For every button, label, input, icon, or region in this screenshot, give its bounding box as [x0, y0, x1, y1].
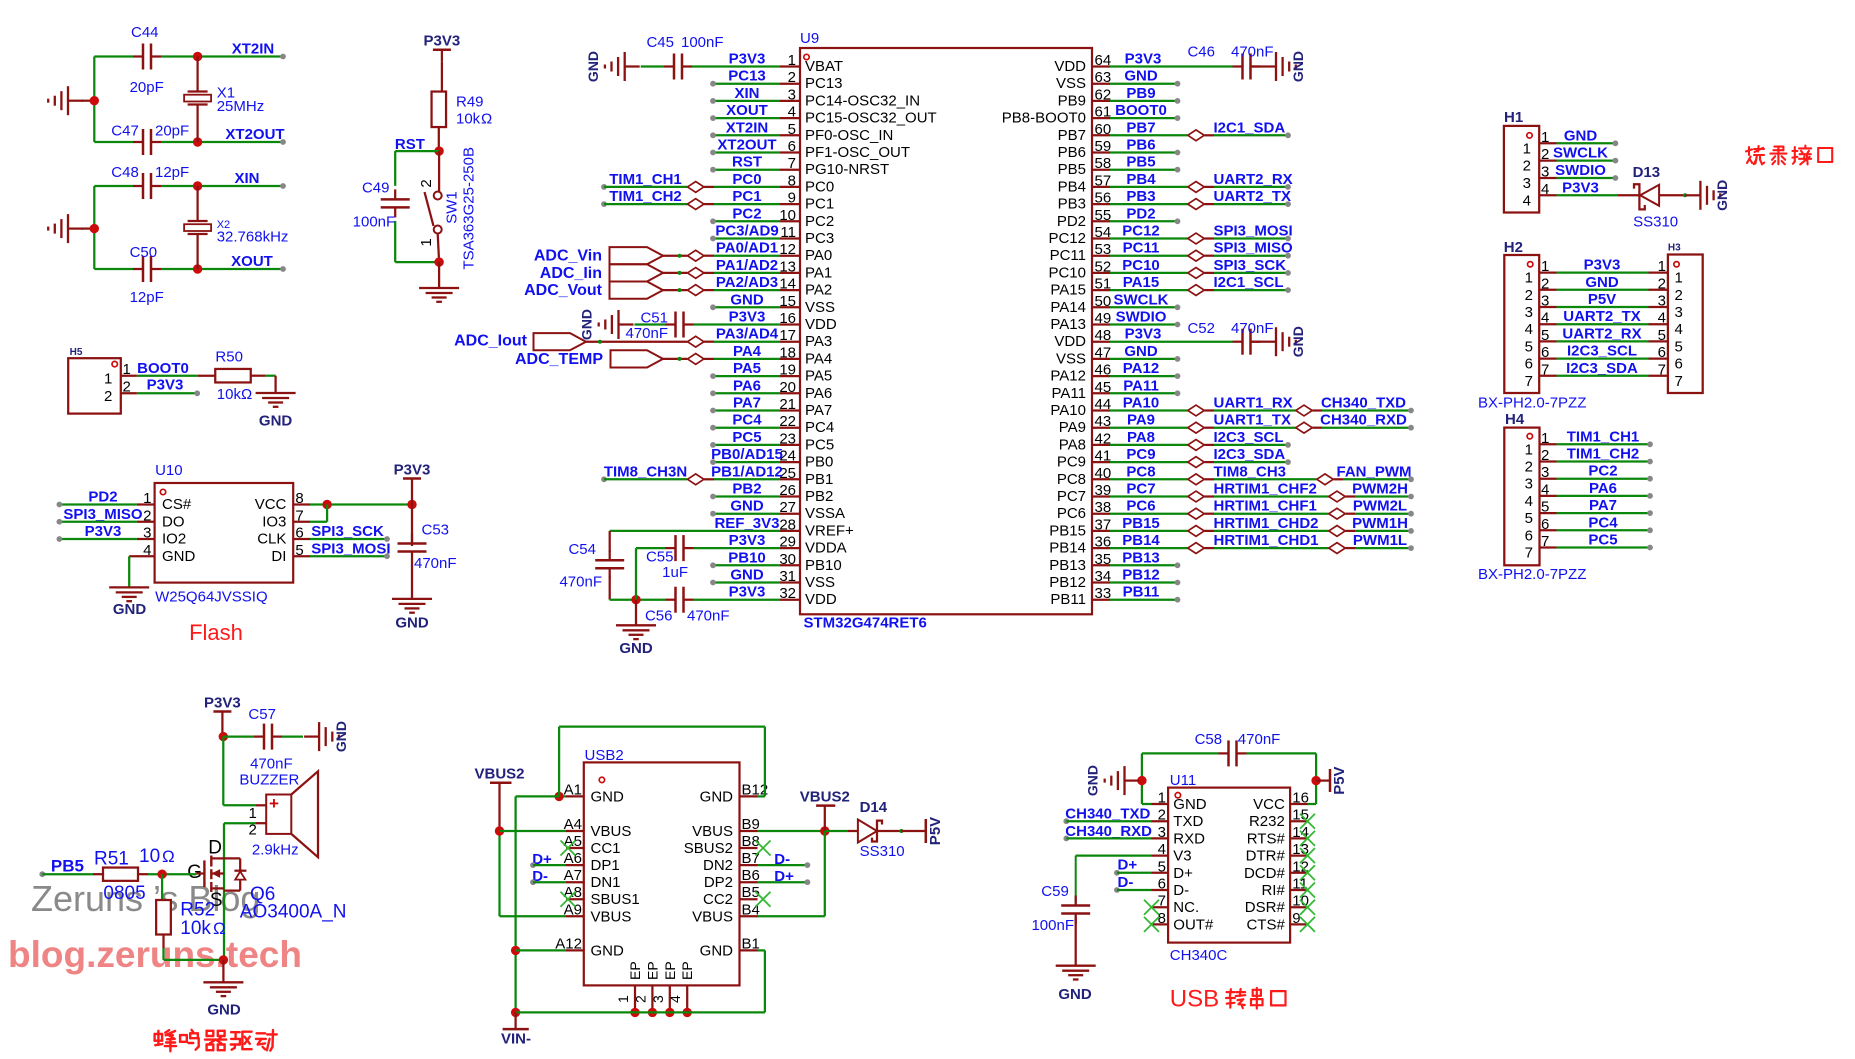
svg-text:25MHz: 25MHz — [217, 98, 265, 115]
svg-text:470nF: 470nF — [1238, 731, 1281, 748]
svg-text:VBAT: VBAT — [805, 58, 843, 75]
svg-text:SPI3_SCK: SPI3_SCK — [1214, 257, 1287, 274]
svg-text:CS#: CS# — [162, 496, 192, 513]
svg-text:DSR#: DSR# — [1245, 899, 1286, 916]
svg-text:C57: C57 — [248, 706, 276, 723]
svg-text:XOUT: XOUT — [726, 102, 768, 119]
svg-text:Ω: Ω — [162, 847, 175, 866]
svg-text:R50: R50 — [215, 349, 243, 366]
svg-text:DP1: DP1 — [591, 857, 620, 874]
svg-text:VBUS: VBUS — [692, 908, 733, 925]
svg-text:GND: GND — [1714, 180, 1730, 211]
svg-text:P5V: P5V — [927, 817, 944, 845]
svg-text:7: 7 — [1675, 373, 1683, 390]
svg-text:VBUS2: VBUS2 — [474, 766, 524, 783]
svg-text:D: D — [208, 838, 222, 859]
svg-text:GND: GND — [1585, 274, 1619, 291]
svg-text:VBUS: VBUS — [591, 908, 632, 925]
svg-text:TXD: TXD — [1173, 813, 1203, 830]
svg-text:GND: GND — [579, 309, 595, 340]
svg-text:I2C3_SCL: I2C3_SCL — [1567, 343, 1637, 360]
svg-text:PB15: PB15 — [1049, 522, 1086, 539]
svg-text:+: + — [269, 794, 279, 813]
svg-text:Ω: Ω — [241, 386, 252, 403]
svg-text:PC2: PC2 — [1588, 463, 1617, 480]
svg-text:10k: 10k — [180, 918, 211, 939]
svg-text:C46: C46 — [1187, 44, 1215, 61]
svg-text:H5: H5 — [70, 347, 83, 358]
svg-text:20pF: 20pF — [130, 79, 164, 96]
svg-text:PA8: PA8 — [1127, 429, 1155, 446]
svg-text:XOUT: XOUT — [231, 253, 273, 270]
svg-text:PB6: PB6 — [1126, 137, 1155, 154]
svg-text:VSS: VSS — [1056, 350, 1086, 367]
svg-text:PA9: PA9 — [1059, 419, 1086, 436]
svg-text:PC7: PC7 — [1057, 488, 1086, 505]
svg-text:VDD: VDD — [1054, 333, 1086, 350]
svg-text:PC3/AD9: PC3/AD9 — [715, 223, 778, 240]
svg-text:PB3: PB3 — [1126, 188, 1155, 205]
svg-text:C50: C50 — [130, 244, 158, 261]
svg-text:IO3: IO3 — [262, 513, 286, 530]
svg-text:5: 5 — [1675, 338, 1683, 355]
svg-text:C54: C54 — [568, 541, 596, 558]
svg-text:VCC: VCC — [255, 496, 287, 513]
svg-text:PA8: PA8 — [1059, 436, 1086, 453]
svg-text:ADC_Iin: ADC_Iin — [540, 265, 602, 282]
svg-text:SWCLK: SWCLK — [1114, 291, 1169, 308]
svg-text:PB12: PB12 — [1049, 574, 1086, 591]
svg-text:D+: D+ — [1173, 865, 1193, 882]
svg-text:PA4: PA4 — [733, 343, 762, 360]
svg-text:DO: DO — [162, 513, 185, 530]
svg-text:VREF+: VREF+ — [805, 522, 854, 539]
svg-text:PC14-OSC32_IN: PC14-OSC32_IN — [805, 92, 920, 109]
svg-text:4: 4 — [1523, 192, 1531, 209]
svg-text:12pF: 12pF — [130, 289, 164, 306]
svg-text:H3: H3 — [1668, 243, 1681, 254]
svg-text:D13: D13 — [1633, 164, 1661, 181]
svg-text:PA5: PA5 — [805, 368, 832, 385]
svg-text:SS310: SS310 — [860, 843, 905, 860]
svg-text:GND: GND — [730, 498, 764, 515]
svg-text:RTS#: RTS# — [1247, 830, 1286, 847]
svg-text:1: 1 — [418, 238, 435, 246]
svg-text:2: 2 — [249, 822, 257, 839]
svg-text:P3V3: P3V3 — [1584, 257, 1621, 274]
svg-text:C59: C59 — [1041, 883, 1069, 900]
svg-text:P3V3: P3V3 — [85, 523, 122, 540]
svg-text:ADC_Vin: ADC_Vin — [534, 248, 602, 265]
svg-text:PC2: PC2 — [732, 205, 761, 222]
svg-text:DCD#: DCD# — [1244, 865, 1285, 882]
svg-text:VBUS: VBUS — [591, 823, 632, 840]
svg-text:3: 3 — [650, 995, 666, 1003]
svg-text:PA12: PA12 — [1123, 360, 1159, 377]
svg-text:GND: GND — [1290, 326, 1306, 357]
svg-text:PC5: PC5 — [732, 429, 761, 446]
svg-text:4: 4 — [1675, 321, 1683, 338]
svg-text:2: 2 — [1525, 459, 1533, 476]
svg-text:PA6: PA6 — [733, 377, 761, 394]
svg-text:PB14: PB14 — [1122, 532, 1160, 549]
svg-text:PB7: PB7 — [1126, 119, 1155, 136]
svg-text:GND: GND — [1124, 343, 1158, 360]
svg-text:VIN-: VIN- — [501, 1031, 531, 1048]
svg-text:XIN: XIN — [734, 85, 759, 102]
svg-text:PA12: PA12 — [1050, 368, 1086, 385]
svg-text:PB13: PB13 — [1049, 557, 1086, 574]
svg-text:TSA363G25-250B: TSA363G25-250B — [461, 147, 478, 270]
svg-text:GND: GND — [591, 942, 625, 959]
svg-text:5: 5 — [1525, 510, 1533, 527]
svg-text:ADC_Vout: ADC_Vout — [524, 282, 603, 299]
svg-text:6: 6 — [1525, 356, 1533, 373]
svg-text:PB9: PB9 — [1058, 92, 1086, 109]
svg-text:GND: GND — [113, 601, 147, 618]
svg-text:SPI3_SCK: SPI3_SCK — [311, 523, 384, 540]
svg-text:PB13: PB13 — [1122, 549, 1160, 566]
svg-text:PF1-OSC_OUT: PF1-OSC_OUT — [805, 144, 910, 161]
svg-text:SBUS1: SBUS1 — [591, 891, 640, 908]
svg-text:VDD: VDD — [805, 591, 837, 608]
svg-text:6: 6 — [1525, 527, 1533, 544]
svg-text:PC12: PC12 — [1122, 223, 1160, 240]
svg-text:PF0-OSC_IN: PF0-OSC_IN — [805, 127, 893, 144]
svg-text:C47: C47 — [111, 123, 139, 140]
svg-text:EP: EP — [627, 961, 643, 980]
svg-text:C56: C56 — [645, 608, 673, 625]
svg-text:2: 2 — [1525, 287, 1533, 304]
svg-text:P3V3: P3V3 — [204, 695, 241, 712]
svg-text:Ω: Ω — [481, 110, 492, 127]
svg-text:PC8: PC8 — [1057, 471, 1086, 488]
svg-text:PA2: PA2 — [805, 282, 832, 299]
svg-text:DP2: DP2 — [704, 874, 733, 891]
svg-text:U9: U9 — [800, 30, 819, 47]
svg-text:GND: GND — [1173, 796, 1207, 813]
svg-text:PB9: PB9 — [1126, 85, 1155, 102]
svg-text:PC6: PC6 — [1057, 505, 1086, 522]
svg-text:P5V: P5V — [1331, 766, 1348, 794]
svg-text:GND: GND — [585, 51, 601, 82]
svg-text:BUZZER: BUZZER — [239, 772, 299, 789]
svg-text:XT2OUT: XT2OUT — [225, 126, 284, 143]
svg-text:GND: GND — [259, 413, 293, 430]
svg-text:SWDIO: SWDIO — [1116, 309, 1167, 326]
svg-text:PWM1H: PWM1H — [1352, 515, 1408, 532]
svg-text:V3: V3 — [1173, 848, 1191, 865]
svg-text:PA6: PA6 — [1589, 480, 1617, 497]
svg-text:GND: GND — [619, 640, 653, 657]
svg-text:1: 1 — [104, 370, 112, 387]
svg-text:PC15-OSC32_OUT: PC15-OSC32_OUT — [805, 110, 937, 127]
svg-text:H4: H4 — [1505, 411, 1525, 428]
svg-text:BX-PH2.0-7PZZ: BX-PH2.0-7PZZ — [1478, 394, 1586, 411]
svg-text:SPI3_MISO: SPI3_MISO — [1214, 240, 1294, 257]
svg-text:SPI3_MOSI: SPI3_MOSI — [1214, 223, 1293, 240]
svg-text:PG10-NRST: PG10-NRST — [805, 161, 889, 178]
svg-text:VCC: VCC — [1253, 796, 1285, 813]
svg-text:UART1_TX: UART1_TX — [1214, 412, 1292, 429]
svg-text:470nF: 470nF — [1231, 320, 1274, 337]
svg-text:PA14: PA14 — [1050, 299, 1086, 316]
svg-text:PC13: PC13 — [728, 68, 766, 85]
svg-text:PB11: PB11 — [1123, 584, 1160, 601]
svg-text:3: 3 — [1525, 476, 1533, 493]
svg-text:C44: C44 — [131, 24, 159, 41]
svg-text:GND: GND — [591, 788, 625, 805]
svg-text:PB0: PB0 — [805, 454, 833, 471]
svg-text:20pF: 20pF — [155, 123, 189, 140]
svg-text:PD2: PD2 — [88, 489, 117, 506]
svg-text:PB7: PB7 — [1058, 127, 1086, 144]
svg-text:CH340_TXD: CH340_TXD — [1321, 395, 1406, 412]
svg-text:SWDIO: SWDIO — [1555, 162, 1606, 179]
svg-text:PB3: PB3 — [1058, 196, 1086, 213]
svg-text:I2C3_SDA: I2C3_SDA — [1214, 446, 1286, 463]
svg-text:C53: C53 — [422, 522, 450, 539]
svg-text:PC2: PC2 — [805, 213, 834, 230]
svg-text:VBUS2: VBUS2 — [800, 789, 850, 806]
svg-text:100nF: 100nF — [681, 34, 724, 51]
svg-text:PA7: PA7 — [733, 395, 761, 412]
svg-text:PB11: PB11 — [1050, 591, 1086, 608]
svg-text:VDDA: VDDA — [805, 540, 847, 557]
svg-text:AO3400A_N: AO3400A_N — [240, 902, 347, 923]
svg-text:1: 1 — [1523, 140, 1531, 157]
svg-text:12pF: 12pF — [155, 164, 189, 181]
svg-text:SPI3_MOSI: SPI3_MOSI — [311, 541, 390, 558]
svg-text:PA6: PA6 — [805, 385, 832, 402]
svg-text:PB1/AD12: PB1/AD12 — [711, 463, 783, 480]
svg-text:PA10: PA10 — [1123, 395, 1159, 412]
svg-text:CH340_TXD: CH340_TXD — [1065, 806, 1150, 823]
svg-text:VSS: VSS — [1056, 75, 1086, 92]
svg-text:U10: U10 — [155, 462, 183, 479]
svg-text:I2C1_SCL: I2C1_SCL — [1214, 274, 1284, 291]
svg-text:P3V3: P3V3 — [729, 584, 766, 601]
svg-text:GND: GND — [730, 291, 764, 308]
svg-text:GND: GND — [1564, 127, 1598, 144]
svg-text:PA1: PA1 — [805, 264, 832, 281]
svg-text:TIM1_CH1: TIM1_CH1 — [609, 171, 682, 188]
svg-text:GND: GND — [1124, 68, 1158, 85]
svg-text:EP: EP — [679, 961, 695, 980]
svg-text:PB12: PB12 — [1122, 567, 1160, 584]
svg-text:TIM1_CH2: TIM1_CH2 — [1567, 446, 1640, 463]
svg-text:PC12: PC12 — [1048, 230, 1086, 247]
svg-text:6: 6 — [1675, 356, 1683, 373]
svg-text:PB10: PB10 — [728, 549, 766, 566]
svg-text:OUT#: OUT# — [1173, 916, 1214, 933]
svg-text:R51: R51 — [94, 849, 129, 870]
svg-text:R49: R49 — [456, 93, 484, 110]
svg-text:470nF: 470nF — [414, 555, 457, 572]
svg-text:HRTIM1_CHF2: HRTIM1_CHF2 — [1214, 481, 1317, 498]
svg-text:REF_3V3: REF_3V3 — [714, 515, 779, 532]
svg-text:PC5: PC5 — [1588, 532, 1617, 549]
svg-text:DN1: DN1 — [591, 874, 621, 891]
svg-text:470nF: 470nF — [250, 756, 293, 773]
svg-text:TIM1_CH1: TIM1_CH1 — [1567, 428, 1640, 445]
svg-text:PC4: PC4 — [805, 419, 834, 436]
svg-text:C51: C51 — [640, 310, 668, 327]
svg-text:3: 3 — [1523, 175, 1531, 192]
svg-text:PWM2H: PWM2H — [1352, 481, 1408, 498]
svg-text:UART2_RX: UART2_RX — [1562, 325, 1641, 342]
svg-text:GND: GND — [1085, 765, 1101, 796]
svg-text:CH340_RXD: CH340_RXD — [1065, 823, 1152, 840]
svg-text:PD2: PD2 — [1057, 213, 1086, 230]
svg-text:BOOT0: BOOT0 — [1115, 102, 1167, 119]
svg-text:XT2IN: XT2IN — [232, 41, 275, 58]
svg-text:PC4: PC4 — [1588, 514, 1618, 531]
svg-text:DN2: DN2 — [703, 857, 733, 874]
svg-text:P3V3: P3V3 — [729, 532, 766, 549]
svg-text:TIM8_CH3: TIM8_CH3 — [1214, 463, 1287, 480]
svg-text:ADC_Iout: ADC_Iout — [454, 333, 528, 350]
svg-text:PC9: PC9 — [1057, 454, 1086, 471]
svg-text:CC1: CC1 — [591, 840, 621, 857]
svg-text:PB5: PB5 — [51, 857, 84, 876]
svg-text:VDD: VDD — [805, 316, 837, 333]
svg-text:PC8: PC8 — [1126, 463, 1155, 480]
svg-text:PC1: PC1 — [732, 188, 761, 205]
svg-text:SWCLK: SWCLK — [1553, 145, 1608, 162]
svg-text:P5V: P5V — [1588, 291, 1616, 308]
svg-text:2: 2 — [1675, 287, 1683, 304]
svg-text:PC9: PC9 — [1126, 446, 1155, 463]
svg-text:VBUS: VBUS — [692, 823, 733, 840]
svg-text:HRTIM1_CHD2: HRTIM1_CHD2 — [1214, 515, 1319, 532]
svg-text:D-: D- — [1118, 874, 1134, 891]
svg-text:Ω: Ω — [213, 919, 226, 938]
svg-text:DTR#: DTR# — [1246, 848, 1286, 865]
svg-text:100nF: 100nF — [1031, 917, 1074, 934]
svg-text:PC6: PC6 — [1126, 498, 1155, 515]
svg-text:FAN_PWM: FAN_PWM — [1337, 463, 1412, 480]
svg-text:PA3: PA3 — [805, 333, 832, 350]
svg-text:CH340C: CH340C — [1170, 947, 1228, 964]
svg-text:PC5: PC5 — [805, 436, 834, 453]
svg-text:PA9: PA9 — [1127, 412, 1155, 429]
svg-text:I2C1_SDA: I2C1_SDA — [1214, 119, 1286, 136]
svg-text:PB1: PB1 — [805, 471, 833, 488]
svg-text:GND: GND — [700, 942, 734, 959]
svg-text:PB4: PB4 — [1126, 171, 1156, 188]
svg-text:2: 2 — [1523, 158, 1531, 175]
svg-text:GND: GND — [395, 615, 429, 632]
svg-text:Zeruns ’s Blog: Zeruns ’s Blog — [31, 878, 260, 919]
svg-text:PA11: PA11 — [1052, 385, 1086, 402]
svg-text:PB0/AD15: PB0/AD15 — [711, 446, 783, 463]
svg-text:BX-PH2.0-7PZZ: BX-PH2.0-7PZZ — [1478, 566, 1586, 583]
svg-text:CLK: CLK — [257, 531, 286, 548]
svg-text:10k: 10k — [217, 386, 242, 403]
svg-text:CTS#: CTS# — [1246, 916, 1285, 933]
svg-text:VSSA: VSSA — [805, 505, 845, 522]
svg-text:10k: 10k — [456, 110, 481, 127]
svg-text:SW1: SW1 — [444, 191, 461, 224]
svg-text:PA15: PA15 — [1050, 282, 1086, 299]
svg-text:P3V3: P3V3 — [1125, 326, 1162, 343]
svg-text:4: 4 — [667, 995, 683, 1003]
svg-text:IO2: IO2 — [162, 531, 186, 548]
svg-text:1: 1 — [615, 995, 631, 1003]
svg-text:PB15: PB15 — [1122, 515, 1160, 532]
svg-text:C58: C58 — [1195, 731, 1223, 748]
svg-text:10: 10 — [139, 846, 160, 867]
svg-text:PB4: PB4 — [1058, 178, 1086, 195]
svg-text:U11: U11 — [1170, 772, 1196, 789]
svg-text:PC7: PC7 — [1126, 481, 1155, 498]
svg-text:4: 4 — [1525, 321, 1533, 338]
svg-text:470nF: 470nF — [625, 325, 668, 342]
svg-text:5: 5 — [1525, 338, 1533, 355]
svg-text:470nF: 470nF — [559, 574, 602, 591]
svg-text:100nF: 100nF — [353, 214, 396, 231]
svg-text:PC0: PC0 — [805, 178, 834, 195]
svg-text:I2C3_SCL: I2C3_SCL — [1214, 429, 1284, 446]
svg-text:PB6: PB6 — [1058, 144, 1086, 161]
svg-text:P3V3: P3V3 — [729, 309, 766, 326]
svg-text:GND: GND — [730, 567, 764, 584]
svg-text:VDD: VDD — [1054, 58, 1086, 75]
svg-text:PA15: PA15 — [1123, 274, 1159, 291]
svg-text:UART2_RX: UART2_RX — [1214, 171, 1293, 188]
svg-text:PA11: PA11 — [1123, 377, 1159, 394]
svg-text:PA3/AD4: PA3/AD4 — [716, 326, 779, 343]
svg-text:D+: D+ — [1118, 857, 1138, 874]
svg-text:H2: H2 — [1504, 239, 1523, 256]
svg-text:P3V3: P3V3 — [424, 33, 461, 50]
svg-text:DI: DI — [271, 548, 286, 565]
svg-text:P3V3: P3V3 — [729, 51, 766, 68]
svg-text:C45: C45 — [646, 34, 674, 51]
svg-text:Flash: Flash — [189, 620, 243, 645]
svg-text:7: 7 — [1525, 545, 1533, 562]
svg-text:H1: H1 — [1504, 109, 1523, 126]
svg-text:D-: D- — [1173, 882, 1189, 899]
svg-text:PB8-BOOT0: PB8-BOOT0 — [1002, 110, 1086, 127]
svg-text:2: 2 — [632, 995, 648, 1003]
svg-text:RI#: RI# — [1261, 882, 1285, 899]
svg-text:ADC_TEMP: ADC_TEMP — [515, 351, 603, 368]
svg-text:GND: GND — [700, 788, 734, 805]
svg-text:C52: C52 — [1187, 320, 1215, 337]
svg-text:PC11: PC11 — [1123, 240, 1160, 257]
svg-text:HRTIM1_CHD1: HRTIM1_CHD1 — [1214, 532, 1319, 549]
svg-text:UART2_TX: UART2_TX — [1214, 188, 1292, 205]
svg-text:3: 3 — [1675, 304, 1683, 321]
svg-text:PB10: PB10 — [805, 557, 842, 574]
svg-text:3: 3 — [1525, 304, 1533, 321]
svg-text:UART2_TX: UART2_TX — [1563, 308, 1641, 325]
svg-text:W25Q64JVSSIQ: W25Q64JVSSIQ — [155, 589, 268, 606]
svg-text:SPI3_MISO: SPI3_MISO — [63, 506, 143, 523]
svg-text:XT2OUT: XT2OUT — [717, 137, 776, 154]
svg-text:EP: EP — [644, 961, 660, 980]
svg-text:PC11: PC11 — [1050, 247, 1086, 264]
svg-text:2: 2 — [104, 388, 112, 405]
svg-text:1: 1 — [1675, 270, 1683, 287]
svg-text:PWM1L: PWM1L — [1353, 532, 1407, 549]
svg-text:P3V3: P3V3 — [1562, 179, 1599, 196]
svg-text:C48: C48 — [111, 164, 139, 181]
svg-text:PD2: PD2 — [1126, 205, 1155, 222]
svg-text:USB: USB — [1170, 986, 1219, 1013]
